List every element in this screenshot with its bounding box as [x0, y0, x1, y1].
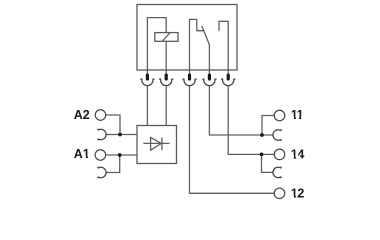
svg-text:A2: A2	[74, 108, 90, 122]
svg-text:11: 11	[291, 108, 304, 122]
svg-text:12: 12	[291, 187, 305, 201]
svg-text:A1: A1	[74, 147, 90, 161]
svg-text:14: 14	[291, 147, 305, 161]
